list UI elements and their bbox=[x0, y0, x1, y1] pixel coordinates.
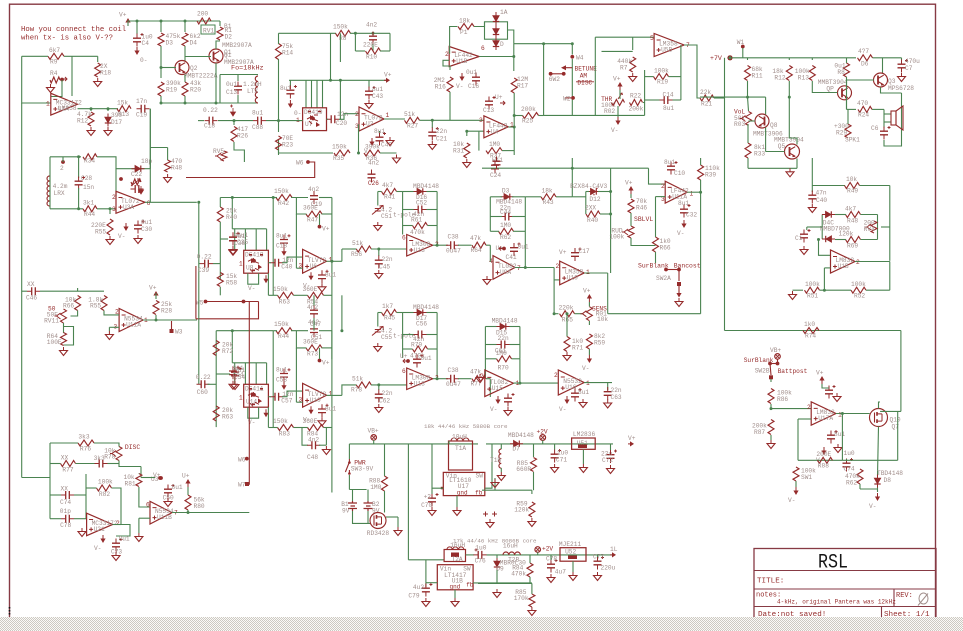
w bbox=[550, 555, 552, 560]
w bbox=[585, 192, 587, 215]
svg-text:MPS6728: MPS6728 bbox=[888, 85, 914, 92]
w bbox=[448, 441, 450, 444]
svg-text:R62: R62 bbox=[846, 480, 857, 487]
svg-text:4k7: 4k7 bbox=[382, 182, 393, 189]
capacitor C19 bbox=[141, 105, 145, 113]
resistor R13 bbox=[117, 106, 131, 112]
w bbox=[486, 378, 490, 380]
wire to U13b bbox=[371, 384, 407, 386]
op-amp U6 bbox=[303, 249, 327, 273]
wire loop bbox=[64, 327, 74, 346]
transistor QPQ bbox=[838, 86, 852, 100]
svg-text:V-: V- bbox=[677, 230, 684, 237]
svg-text:VB+: VB+ bbox=[368, 428, 379, 435]
svg-text:6: 6 bbox=[402, 235, 406, 242]
resistor R26 bbox=[231, 127, 237, 142]
svg-text:SW3-9V: SW3-9V bbox=[351, 466, 374, 473]
svg-text:R52: R52 bbox=[854, 293, 865, 300]
svg-text:16uH: 16uH bbox=[503, 543, 518, 550]
w bbox=[877, 488, 879, 493]
svg-text:2: 2 bbox=[661, 183, 665, 190]
svg-text:R63: R63 bbox=[222, 414, 233, 421]
wire box right r11 bbox=[519, 327, 521, 359]
svg-text:2: 2 bbox=[556, 263, 560, 270]
w bbox=[539, 115, 544, 117]
svg-text:12n: 12n bbox=[337, 111, 348, 118]
resistor R84b bbox=[527, 563, 533, 577]
w bbox=[519, 359, 521, 383]
capacitor C65 bbox=[571, 393, 579, 397]
svg-text:4k7: 4k7 bbox=[845, 206, 856, 213]
svg-text:V+: V+ bbox=[625, 180, 633, 187]
wire fb right U5 bbox=[680, 45, 682, 100]
power V+ bbox=[155, 295, 157, 300]
net node bbox=[776, 362, 780, 366]
w bbox=[403, 225, 413, 227]
svg-text:R19: R19 bbox=[657, 79, 668, 86]
w bbox=[22, 290, 27, 292]
junction bbox=[436, 244, 439, 247]
resistor R11 bbox=[745, 66, 751, 81]
w bbox=[427, 191, 438, 193]
w bbox=[120, 513, 122, 525]
w bbox=[494, 478, 496, 490]
junction bbox=[155, 319, 158, 322]
power 0- bbox=[289, 100, 291, 105]
wire bottom rail bbox=[22, 477, 50, 479]
wire rail1 ext bbox=[486, 443, 613, 445]
resistor R25 bbox=[523, 113, 539, 119]
wire box down bbox=[267, 407, 269, 427]
battery B1 bbox=[348, 501, 357, 511]
w bbox=[216, 373, 230, 375]
svg-text:16uH: 16uH bbox=[450, 542, 465, 549]
capacitor C41 bbox=[510, 248, 518, 252]
power V- bbox=[371, 138, 373, 143]
ground C70 bbox=[431, 507, 433, 511]
svg-text:22k: 22k bbox=[700, 89, 711, 96]
capacitor C39 bbox=[205, 260, 209, 268]
w bbox=[847, 108, 857, 110]
svg-text:REV:: REV: bbox=[896, 592, 913, 600]
w bbox=[846, 459, 848, 460]
wire cap to opamp bbox=[282, 391, 303, 397]
capacitor C54 bbox=[229, 371, 237, 375]
svg-text:100k: 100k bbox=[98, 479, 113, 486]
svg-text:V+: V+ bbox=[559, 249, 567, 256]
svg-text:R78: R78 bbox=[351, 387, 362, 394]
capacitor C30 bbox=[134, 225, 142, 229]
svg-text:Battpost: Battpost bbox=[778, 368, 808, 375]
svg-text:6: 6 bbox=[481, 45, 485, 52]
svg-text:C35: C35 bbox=[237, 239, 248, 246]
diode D1 bbox=[493, 16, 499, 22]
w bbox=[219, 287, 221, 295]
ground trim bbox=[377, 343, 379, 347]
w bbox=[341, 249, 343, 261]
wire row 168 bbox=[482, 167, 611, 169]
w bbox=[378, 249, 380, 256]
power V- bbox=[877, 493, 879, 498]
svg-text:1: 1 bbox=[239, 260, 243, 267]
w bbox=[77, 288, 79, 291]
capacitor C47 bbox=[310, 310, 318, 314]
wire row 490 bbox=[482, 489, 532, 491]
svg-text:W6: W6 bbox=[296, 160, 304, 167]
net W5 bend bbox=[196, 302, 259, 319]
w bbox=[213, 263, 220, 265]
svg-text:VB+: VB+ bbox=[770, 347, 781, 354]
svg-text:8u1: 8u1 bbox=[280, 85, 291, 92]
svg-text:V-: V- bbox=[559, 406, 566, 413]
resistor R63 bbox=[278, 292, 294, 298]
svg-text:Q1: Q1 bbox=[224, 49, 232, 56]
svg-text:C6: C6 bbox=[871, 125, 879, 132]
resistor R61 bbox=[413, 223, 428, 229]
resistor R88c bbox=[818, 457, 833, 463]
svg-text:RV4: RV4 bbox=[864, 226, 875, 233]
wire split bbox=[150, 147, 167, 149]
wire top ext2 bbox=[216, 330, 273, 332]
svg-text:V+: V+ bbox=[322, 360, 330, 367]
svg-text:U21: U21 bbox=[94, 526, 105, 533]
resistor R19 bbox=[654, 74, 669, 80]
w bbox=[598, 191, 611, 193]
wire long row bbox=[544, 114, 645, 116]
wire ctrl bus bbox=[289, 79, 388, 81]
IC U1Bd bbox=[437, 565, 473, 590]
svg-text:3k1: 3k1 bbox=[83, 200, 94, 207]
w bbox=[542, 440, 544, 444]
frame left dotted end bbox=[9, 607, 11, 616]
w bbox=[355, 50, 365, 52]
svg-text:100E: 100E bbox=[47, 339, 62, 346]
net V+2 bbox=[159, 476, 163, 480]
svg-text:TBD4148: TBD4148 bbox=[877, 470, 903, 477]
svg-text:MMBT2222A: MMBT2222A bbox=[184, 73, 218, 80]
wire W2 down2 bbox=[571, 158, 573, 197]
w bbox=[187, 510, 189, 513]
op-amp U11B bbox=[150, 501, 172, 524]
svg-text:360E: 360E bbox=[303, 418, 318, 425]
svg-text:R13: R13 bbox=[798, 75, 809, 82]
wire to U5 node bbox=[514, 43, 573, 45]
power V- bbox=[566, 396, 568, 401]
wire top ext bbox=[220, 197, 273, 199]
wire into U9 bbox=[489, 245, 491, 262]
wire R14 down bbox=[278, 59, 280, 132]
w bbox=[397, 312, 403, 314]
junction bbox=[136, 20, 139, 23]
w bbox=[291, 330, 308, 332]
op-amp U21 bbox=[87, 513, 113, 536]
ground C64 bbox=[234, 381, 236, 385]
svg-text:1A: 1A bbox=[500, 9, 508, 16]
svg-text:0u1: 0u1 bbox=[226, 81, 237, 88]
ground T1B bbox=[500, 472, 502, 476]
power V+ bbox=[384, 79, 387, 81]
w bbox=[458, 378, 472, 380]
w bbox=[155, 315, 157, 320]
w bbox=[588, 349, 590, 355]
svg-text:V+: V+ bbox=[583, 288, 591, 295]
svg-text:D3: D3 bbox=[166, 40, 174, 47]
svg-text:4n2: 4n2 bbox=[308, 437, 319, 444]
net stub BETUNE bbox=[563, 67, 572, 69]
wire fb row r12 bbox=[798, 459, 842, 461]
svg-text:RSL: RSL bbox=[818, 552, 848, 575]
wire U9 out bbox=[515, 267, 554, 269]
arrow bbox=[139, 186, 144, 194]
resistor R36 bbox=[364, 150, 380, 156]
wire to C4 bbox=[136, 21, 138, 34]
w bbox=[428, 225, 438, 227]
U52 mark bbox=[568, 556, 577, 560]
svg-text:22n: 22n bbox=[382, 256, 393, 263]
w bbox=[324, 427, 332, 429]
wire left long rail bbox=[21, 103, 23, 478]
w bbox=[588, 302, 590, 307]
svg-text:C52: C52 bbox=[416, 200, 427, 207]
svg-text:R24: R24 bbox=[858, 112, 869, 119]
svg-text:2: 2 bbox=[60, 165, 64, 172]
svg-text:51k: 51k bbox=[352, 376, 363, 383]
svg-text:R46: R46 bbox=[636, 205, 647, 212]
wire to R16 bbox=[443, 60, 450, 70]
w bbox=[770, 435, 772, 440]
wire U1A out bbox=[78, 108, 119, 110]
outside-page checker bottom bbox=[0, 617, 963, 631]
w bbox=[268, 427, 277, 429]
resistor R8 bbox=[336, 30, 351, 36]
w bbox=[109, 326, 119, 328]
wire to R2 bbox=[219, 21, 221, 26]
ground +in bbox=[108, 331, 110, 335]
resistor R72 bbox=[213, 341, 219, 356]
w bbox=[872, 108, 884, 110]
wire fb right bbox=[149, 109, 151, 203]
junction bbox=[184, 20, 187, 23]
w bbox=[630, 213, 632, 226]
w bbox=[586, 191, 589, 193]
svg-text:Vin: Vin bbox=[440, 566, 451, 573]
wire +7 left drop bbox=[724, 58, 726, 97]
capacitor C10 bbox=[667, 166, 675, 170]
svg-text:LM358: LM358 bbox=[58, 105, 77, 112]
w bbox=[431, 488, 433, 494]
svg-text:3: 3 bbox=[479, 117, 483, 124]
ground Q6 bbox=[397, 527, 399, 531]
svg-text:8u1: 8u1 bbox=[276, 232, 287, 239]
w bbox=[322, 213, 332, 215]
svg-text:47n: 47n bbox=[816, 190, 827, 197]
junction bbox=[518, 382, 521, 385]
power V- bbox=[283, 382, 285, 387]
w bbox=[811, 186, 813, 193]
ground R31 bbox=[466, 159, 468, 163]
w bbox=[748, 97, 749, 111]
resistor R69 bbox=[846, 237, 861, 243]
wire V+ rail top bbox=[128, 21, 220, 26]
svg-text:V+: V+ bbox=[322, 226, 330, 233]
op-amp U16 bbox=[558, 370, 584, 395]
wire C28 top bbox=[78, 157, 80, 178]
wire U10 out bbox=[584, 272, 608, 274]
wire box left r11 bbox=[484, 327, 486, 378]
wire R31 to U4 bbox=[467, 130, 484, 132]
wire diode left bbox=[821, 215, 823, 240]
svg-text:8u1: 8u1 bbox=[518, 244, 529, 251]
wire Q8 base bbox=[749, 120, 756, 122]
svg-text:2: 2 bbox=[355, 111, 359, 118]
w bbox=[49, 478, 51, 519]
ground C30 bbox=[137, 235, 139, 239]
wire U6 out bbox=[327, 260, 342, 262]
wire Q2 base bbox=[161, 67, 176, 69]
capacitor C46 bbox=[32, 287, 36, 295]
diode D6 bbox=[493, 41, 499, 47]
resistor R74 bbox=[803, 328, 819, 334]
w bbox=[512, 216, 525, 218]
svg-text:R80: R80 bbox=[194, 503, 205, 510]
svg-text:V-: V- bbox=[456, 83, 463, 90]
capacitor C4 bbox=[133, 38, 141, 42]
power V- bbox=[102, 535, 104, 540]
svg-text:R64: R64 bbox=[471, 247, 482, 254]
battery B2 bbox=[364, 501, 373, 511]
net U3 bbox=[158, 476, 162, 480]
net node bbox=[318, 225, 322, 229]
svg-text:8u1: 8u1 bbox=[325, 271, 336, 278]
wire fb row2 bbox=[478, 582, 532, 584]
ground tp bbox=[489, 519, 491, 523]
resistor R40b bbox=[217, 207, 223, 222]
svg-text:1u0: 1u0 bbox=[844, 450, 855, 457]
svg-text:D6: D6 bbox=[861, 61, 869, 68]
resistor R49 bbox=[845, 183, 860, 189]
svg-text:V-: V- bbox=[248, 285, 255, 292]
svg-text:R03: R03 bbox=[734, 121, 745, 128]
ground Q5 bbox=[789, 168, 791, 172]
w bbox=[454, 590, 456, 598]
svg-text:XX: XX bbox=[61, 486, 69, 493]
wire Q3 emit bbox=[881, 87, 902, 93]
wire det right bbox=[436, 313, 438, 379]
potentiometer RV5 bbox=[221, 151, 227, 161]
w bbox=[50, 442, 78, 444]
resistor R46 bbox=[628, 199, 634, 213]
resistor R47 bbox=[306, 211, 322, 217]
switch marks U8 bbox=[248, 258, 259, 272]
w bbox=[846, 58, 848, 63]
svg-text:R12: R12 bbox=[77, 118, 88, 125]
svg-text:R48: R48 bbox=[847, 218, 858, 225]
capacitor C40b bbox=[275, 259, 279, 267]
wire mid left bbox=[296, 198, 306, 215]
wire mid rail bbox=[700, 96, 766, 98]
junction bbox=[770, 407, 773, 410]
svg-text:C63: C63 bbox=[611, 394, 622, 401]
wire R7 top2 bbox=[632, 37, 634, 50]
svg-text:U14: U14 bbox=[246, 398, 257, 405]
svg-text:18k: 18k bbox=[542, 188, 553, 195]
wire bus v bbox=[244, 229, 246, 251]
wire switch to bat bbox=[348, 475, 350, 490]
capacitor C50 bbox=[164, 489, 172, 493]
svg-text:22n: 22n bbox=[382, 390, 393, 397]
w bbox=[296, 267, 302, 269]
resistor R44 bbox=[83, 206, 97, 212]
ground R48 bbox=[167, 174, 169, 178]
w bbox=[901, 58, 903, 60]
w bbox=[884, 121, 891, 123]
svg-text:120k: 120k bbox=[514, 507, 529, 514]
svg-text:DISC: DISC bbox=[577, 79, 592, 86]
diode D17 bbox=[417, 309, 423, 315]
w bbox=[119, 461, 141, 467]
zener bars bbox=[593, 188, 598, 194]
w bbox=[319, 348, 321, 359]
w bbox=[342, 385, 357, 396]
wire fb left bbox=[797, 419, 799, 460]
svg-text:R81: R81 bbox=[125, 481, 136, 488]
w bbox=[352, 490, 354, 502]
svg-text:0.22: 0.22 bbox=[197, 254, 212, 261]
resistor R7 bbox=[630, 57, 636, 72]
w bbox=[322, 347, 332, 349]
wire emitter row bbox=[748, 167, 797, 169]
wire fb U1B bbox=[450, 27, 458, 54]
wire col 890 bbox=[889, 186, 891, 261]
wire box bottom loop bbox=[248, 407, 259, 418]
w bbox=[485, 358, 496, 360]
ground C48 bbox=[325, 446, 327, 450]
wire to R12 bbox=[90, 109, 92, 111]
resistor R48 bbox=[165, 160, 171, 172]
resistor R78 bbox=[356, 382, 371, 388]
junction bbox=[542, 42, 545, 45]
net stub SW2A bbox=[666, 269, 679, 271]
junction bbox=[699, 191, 702, 194]
svg-text:R51: R51 bbox=[807, 293, 818, 300]
svg-text:C14: C14 bbox=[663, 92, 674, 99]
svg-text:R9: R9 bbox=[50, 59, 58, 66]
net node bbox=[664, 268, 668, 272]
svg-text:+2V: +2V bbox=[542, 546, 553, 553]
svg-text:T2A: T2A bbox=[452, 556, 463, 563]
svg-text:2: 2 bbox=[554, 372, 558, 379]
capacitor C64 bbox=[231, 372, 239, 376]
wire col 408 bbox=[407, 444, 409, 560]
capacitor C49 bbox=[376, 137, 384, 141]
w bbox=[859, 484, 861, 489]
w bbox=[367, 511, 369, 523]
switch PWR bbox=[345, 459, 349, 474]
wire col 216 bbox=[215, 331, 217, 427]
capacitor C70 bbox=[428, 498, 436, 502]
w bbox=[233, 121, 235, 125]
resistor R18 bbox=[95, 63, 101, 77]
wire col 50 bbox=[49, 443, 51, 478]
svg-text:V+: V+ bbox=[153, 472, 161, 479]
junction bbox=[77, 207, 80, 210]
svg-text:R40: R40 bbox=[226, 214, 237, 221]
net port SW2A bbox=[677, 282, 681, 286]
junction bbox=[841, 412, 844, 415]
net stub 6W2 bbox=[551, 73, 564, 75]
w bbox=[600, 213, 611, 215]
wire to R55 bbox=[109, 209, 111, 214]
